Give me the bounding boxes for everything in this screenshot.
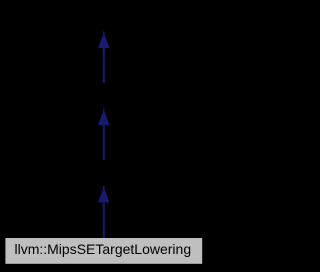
inheritance arrow 1 (to topmost base class) bbox=[98, 31, 110, 83]
node box llvm::MipsSETargetLowering bbox=[5, 238, 202, 264]
inheritance arrow 3 (from llvm::MipsSETargetLowering) bbox=[98, 186, 110, 238]
svg-text:llvm::MipsSETargetLowering: llvm::MipsSETargetLowering bbox=[14, 241, 191, 257]
inheritance arrow 2 (middle) bbox=[98, 109, 110, 161]
